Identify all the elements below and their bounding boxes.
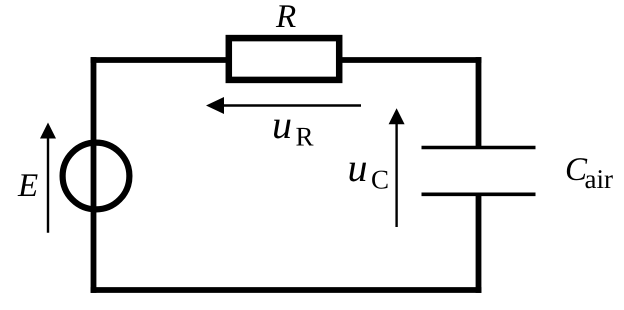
wire right vertical lower [476, 194, 482, 293]
capacitor C_air top plate [422, 146, 536, 150]
uC reference arrow [389, 108, 405, 227]
svg-text:R: R [275, 0, 296, 35]
capacitor C_air bottom plate [422, 193, 536, 197]
wire bottom [91, 287, 482, 293]
resistor R [229, 38, 339, 80]
label C_air [565, 152, 613, 194]
svg-text:E: E [17, 168, 38, 204]
wire top-left segment [91, 57, 226, 63]
wire top-right segment [342, 57, 481, 63]
uR reference arrow [206, 97, 361, 114]
svg-text:air: air [585, 164, 613, 194]
svg-text:R: R [296, 122, 314, 152]
svg-text:u: u [348, 145, 368, 190]
label uC [348, 145, 390, 195]
svg-text:u: u [272, 102, 292, 147]
svg-text:C: C [371, 165, 389, 195]
label uR [272, 102, 314, 152]
wire right vertical upper [476, 57, 482, 147]
source E (circle) [63, 143, 130, 210]
E reference arrow [40, 123, 56, 233]
wire left vertical [91, 57, 97, 293]
